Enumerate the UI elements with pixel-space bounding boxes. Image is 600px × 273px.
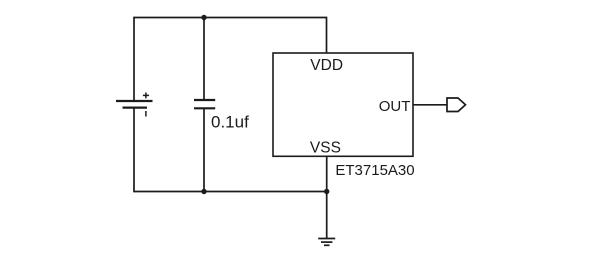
svg-text:VSS: VSS — [310, 140, 341, 157]
output port connector — [447, 98, 466, 112]
svg-text:VDD: VDD — [310, 57, 343, 74]
wire capacitor top lead — [203, 18, 205, 101]
svg-text:ET3715A30: ET3715A30 — [335, 162, 414, 179]
svg-text:0.1uf: 0.1uf — [211, 113, 249, 132]
IC U1 ET3715A30 body — [273, 53, 413, 156]
node: ground junction — [324, 189, 329, 194]
ground — [318, 239, 335, 246]
wire VDD drop (top rail to IC top) — [326, 17, 328, 53]
wire battery top lead — [133, 17, 135, 101]
wire bottom rail (battery - to ground node) — [134, 191, 327, 193]
battery BT1 — [116, 93, 153, 117]
wire top rail (battery + to VDD drop) — [134, 17, 327, 19]
node: capacitor top junction — [201, 15, 206, 20]
wire ground stub — [326, 192, 328, 239]
capacitor C1 — [194, 100, 215, 108]
wire battery bottom lead — [133, 108, 135, 193]
wire VSS drop (IC bottom to ground node) — [326, 156, 328, 191]
svg-text:OUT: OUT — [379, 98, 411, 115]
wire OUT lead — [413, 104, 447, 106]
wire capacitor bottom lead — [203, 108, 205, 191]
node: capacitor bottom junction — [201, 189, 206, 194]
